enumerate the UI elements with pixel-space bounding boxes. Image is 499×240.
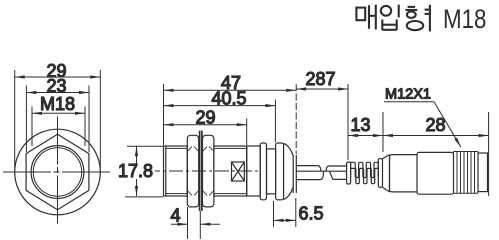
dim M18 <box>32 107 85 147</box>
corrugated boot top wave <box>351 162 379 177</box>
svg-text:28: 28 <box>426 115 446 135</box>
connector cylinder 1 <box>390 155 418 192</box>
svg-text:40.5: 40.5 <box>212 88 247 108</box>
cable jacket left piece <box>296 166 323 180</box>
svg-text:6.5: 6.5 <box>299 204 324 224</box>
svg-text:13: 13 <box>351 115 371 135</box>
svg-text:29: 29 <box>196 108 216 128</box>
gland end face <box>292 155 294 193</box>
boot exit collar <box>378 159 382 188</box>
dim 29 (side) <box>164 119 247 146</box>
gland lip 2 <box>276 143 284 200</box>
axis centerline <box>146 170 258 172</box>
nut 1 <box>187 135 198 207</box>
dim 23 <box>26 86 89 153</box>
connector thread ribs <box>454 152 479 194</box>
dim 28 <box>383 112 489 196</box>
nut 2 <box>203 135 214 207</box>
dim 6.5 <box>274 198 296 227</box>
connector main cylinder <box>417 152 454 194</box>
dim 47 <box>164 84 297 145</box>
LED indicator box <box>232 162 245 181</box>
cable jacket right piece <box>326 166 347 179</box>
boot collar <box>347 162 351 184</box>
vertical centerline <box>57 117 59 225</box>
barrel body <box>164 146 188 196</box>
cable core wire line <box>296 170 346 172</box>
expander taper <box>383 155 390 192</box>
dim 40.5 <box>164 100 276 143</box>
outer circle <box>15 129 101 215</box>
connector end cap <box>478 153 488 192</box>
rear cylinder <box>247 146 261 196</box>
dim 287 <box>296 84 348 160</box>
dim 13 <box>348 112 383 152</box>
corrugated boot bottom wave <box>351 168 379 183</box>
barrel thread root lines <box>166 147 188 149</box>
매 <box>356 8 365 21</box>
horizontal centerline <box>3 171 112 173</box>
gland taper to cable <box>284 144 293 200</box>
mounting panel washer <box>199 131 201 211</box>
형 <box>408 6 416 8</box>
gland neck <box>267 149 276 194</box>
label M12X1 leader <box>384 102 461 147</box>
svg-text:M18: M18 <box>40 94 75 114</box>
hexagon nut front <box>26 134 89 209</box>
svg-text:23: 23 <box>47 76 67 96</box>
thread circle inner <box>33 148 81 196</box>
title korean 매입형 <box>356 5 430 32</box>
svg-text:M18: M18 <box>443 4 487 34</box>
svg-text:17.8: 17.8 <box>118 161 153 181</box>
housing cylinder <box>214 146 247 196</box>
svg-text:4: 4 <box>171 206 181 226</box>
dim 29 (front) <box>15 70 101 168</box>
입 <box>381 6 391 16</box>
barrel face chamfer line <box>165 146 167 196</box>
svg-text:287: 287 <box>306 69 336 89</box>
thread circle outer <box>31 146 84 199</box>
gland lip 1 <box>260 143 266 200</box>
svg-text:M12X1: M12X1 <box>385 87 431 103</box>
dim 17.8 <box>125 146 163 197</box>
dim 4 <box>171 207 220 239</box>
